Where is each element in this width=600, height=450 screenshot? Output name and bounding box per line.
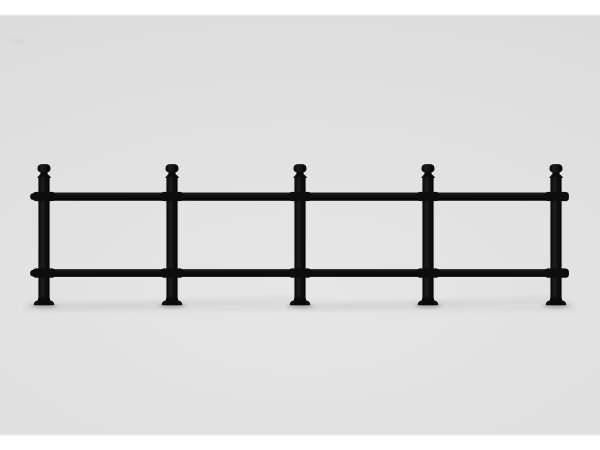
top rail right end cap <box>562 192 569 201</box>
post P3 <box>289 164 311 305</box>
post P5 <box>545 164 567 305</box>
post P4 <box>417 164 439 305</box>
base shadow under post 4 <box>415 304 442 309</box>
bottom rail right end cap <box>562 269 569 278</box>
top rail left end stub <box>30 193 36 200</box>
post P1 <box>33 164 55 305</box>
rail cast shadow streak 2 <box>300 297 562 309</box>
rail cast shadow streak 1 <box>44 297 306 309</box>
base shadow under post 3 <box>287 304 314 309</box>
base shadow under post 2 <box>159 304 186 309</box>
ground contact soft shadow band <box>26 303 574 310</box>
base shadow under post 1 <box>31 304 58 309</box>
bottom rail left end stub <box>30 270 36 277</box>
bottom rail <box>33 269 567 277</box>
base shadow under post 5 <box>543 304 570 309</box>
post P2 <box>161 164 183 305</box>
faint smudge artifact top-left <box>10 38 26 44</box>
top rail <box>33 193 567 201</box>
